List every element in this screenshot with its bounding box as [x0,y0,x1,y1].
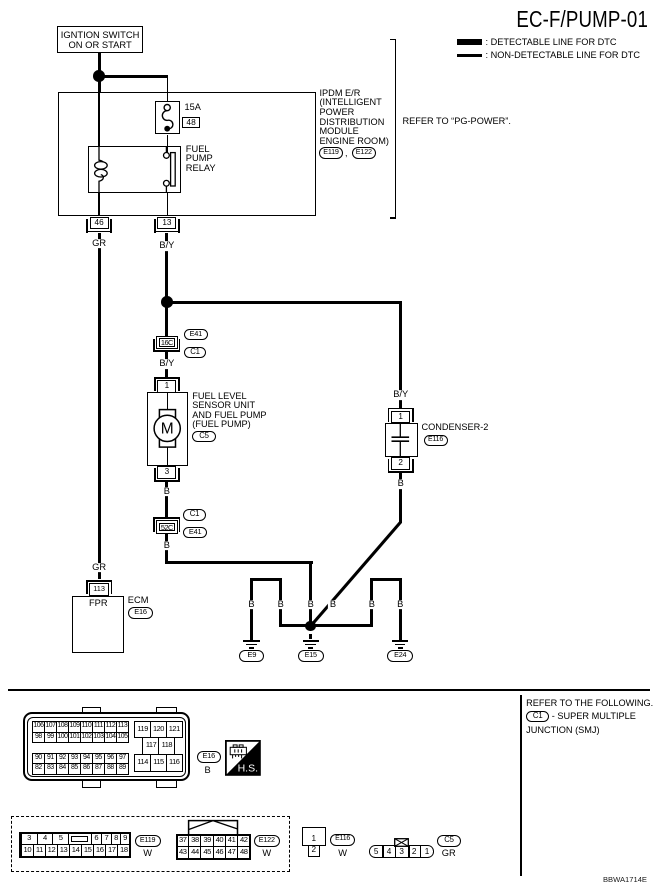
ECM box [72,596,124,653]
wire label [328,600,338,610]
diagonal wire condenser to ground junction [300,515,410,630]
wire label [157,359,176,369]
wire [395,39,397,219]
connector C5 drawing [369,845,434,858]
wire [167,193,168,216]
wire [167,135,168,153]
C5 key (crossed box) [394,838,409,847]
ground [392,640,408,642]
refer to the following note [526,699,653,709]
wire [165,233,168,302]
capacitor symbol [385,423,418,457]
wire [399,302,402,408]
pins 82-89 [32,763,45,775]
connector label C1 [184,347,206,358]
legend non-detectable line [457,54,482,57]
wire [165,352,168,378]
connector E119 drawing [19,832,131,858]
dashed connector group box [11,816,291,871]
wire [165,534,168,564]
pins 114-116 [134,754,151,772]
wire label [276,600,286,610]
pin 3 fuel pump [157,466,176,479]
wire [98,193,99,216]
ECM connector E16 outline [23,712,191,781]
fuel pump relay box [88,146,181,192]
figure code [560,876,647,884]
E122 outline [176,834,251,860]
junction [161,296,173,308]
fuel pump label [192,392,266,430]
pin 2 condenser [391,457,410,470]
wire [165,482,168,517]
connector label C1 [526,711,549,723]
connector label E116 [330,834,354,846]
connector label E122 [254,835,280,847]
wire [8,689,650,692]
pin 46 [90,217,109,230]
wire [303,833,325,834]
wire label [162,487,172,497]
wire [165,302,168,336]
pins 119-121 [134,721,151,739]
wire [167,76,168,102]
wire label [90,563,108,573]
wire [250,578,282,581]
connector label E116 [424,435,448,446]
pin 13 [157,217,176,230]
connector label E41 [183,527,207,538]
pins 37-42 [176,834,190,847]
connector label E24 [387,650,413,662]
connector label E119 [135,835,161,847]
wire label [162,541,172,551]
wire [250,578,253,641]
pins 98-105 [32,732,45,743]
pins 3-9 [21,832,38,845]
wire [390,217,396,219]
ground [303,640,319,642]
wire label [395,600,405,610]
wire label [367,600,377,610]
wire label [246,600,256,610]
connector E116 drawing [302,827,326,846]
wire [370,578,401,581]
relay label [186,145,216,174]
wire [279,578,282,628]
IPDM label block [320,89,389,147]
C5 pins 5 4 3 2 1 [382,845,384,858]
connector label E16 [197,751,222,763]
pin 1 condenser [391,411,410,424]
connector 16C (SMJ) [156,336,178,349]
ECM label [128,596,149,606]
connector label C5 [437,835,461,847]
svg-text:H.S.: H.S. [238,763,258,775]
wire [520,695,522,877]
wire [98,53,101,72]
connector label E16 [128,607,153,619]
fuse 15A 48 box [155,101,179,135]
wire label [306,600,316,610]
E122 top key shape [186,818,240,835]
H.S. view logo [225,740,261,776]
wire [98,233,101,579]
connector label E15 [298,650,324,662]
wire [399,578,402,641]
fuel level sensor unit / fuel pump box [147,392,188,466]
pin 113 [89,583,109,596]
pins 117-118 [142,737,159,755]
connector label E41 [184,329,208,340]
wire [98,92,99,146]
wire [390,39,396,41]
wire [309,634,312,639]
wire [167,392,168,466]
motor M symbol [147,392,188,466]
wire [309,561,312,623]
svg-text:M: M [161,421,174,438]
blank slot [71,836,89,842]
junction [93,70,105,82]
pin 1 fuel pump [157,380,176,393]
connector 52C (SMJ) [156,520,178,533]
fuse rating 15A [185,103,201,113]
connector label C1 [183,509,205,520]
wire [99,75,168,78]
wire label [90,239,108,249]
condenser label [422,423,489,433]
connector label E9 [239,650,264,662]
relay contact [148,146,182,193]
ground [243,640,259,642]
wire [370,578,373,628]
connector tabs [82,707,101,715]
wire label [396,479,406,489]
connector label E119 [319,147,343,158]
wire label [391,390,410,400]
junction [305,621,316,632]
relay coil [88,146,118,193]
title EC-F/PUMP-01 [417,7,648,31]
wire [165,561,313,564]
ignition switch box [57,26,144,53]
wire [167,301,402,304]
refer to PG-POWER [403,117,511,127]
fuse symbol [155,100,181,136]
wire [279,624,374,627]
pins 43-48 [176,846,190,859]
connector label C5 [192,431,215,442]
wire [98,79,101,93]
pins 90-97 [32,753,45,765]
connector label E122 [352,147,376,158]
IPDM E/R box [58,92,316,216]
pins 10-18 [21,844,35,857]
fuse number 48 [182,117,199,129]
wire [399,473,402,523]
legend detectable line [457,39,482,45]
condenser-2 box [385,423,418,457]
wire label [157,241,176,251]
pins 106-113 [32,721,45,732]
